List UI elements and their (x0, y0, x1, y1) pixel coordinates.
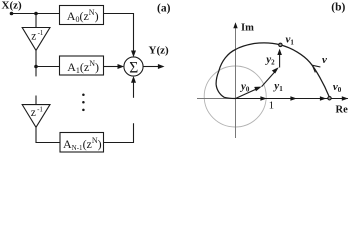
svg-text:(b): (b) (331, 2, 345, 14)
wire summer output (143, 66, 159, 68)
arrowhead on trajectory (312, 65, 320, 72)
delay element z^-1 triangle 2 (22, 105, 50, 128)
svg-text:-1: -1 (37, 106, 43, 114)
wire AN-1 output to summer bottom (104, 123, 134, 142)
summer sigma node (124, 57, 143, 76)
svg-text:Y(z): Y(z) (149, 44, 169, 56)
unit circle (204, 66, 266, 127)
wire A0 output to summer top (104, 14, 134, 51)
vector y2 (279, 53, 281, 68)
block A0(z^N) (60, 6, 104, 25)
node marker v1 (279, 43, 282, 46)
wire delay2 to AN-1 (36, 127, 60, 142)
wire Im axis gray (235, 27, 237, 139)
wire delay1 down to J2 (35, 50, 37, 76)
svg-text:-1: -1 (38, 29, 44, 37)
svg-text:Im: Im (241, 23, 254, 34)
node junction J2 (34, 65, 38, 69)
arrowhead on Re axis unit vector (260, 96, 266, 100)
spiral trajectory curve (216, 43, 329, 99)
arrowhead Re axis end (342, 96, 348, 100)
arrowhead Im axis (233, 22, 237, 28)
svg-text:A0(zN): A0(zN) (67, 8, 99, 24)
vector y0 (236, 89, 258, 99)
node junction J1 (34, 12, 38, 16)
svg-text:(a): (a) (157, 3, 171, 15)
wire stub into delay 2 (35, 96, 37, 105)
arrowhead on Re axis vector 2 (290, 96, 296, 100)
wire A1 output to summer left (104, 66, 119, 68)
vector y0 tip to y2 base (262, 70, 277, 86)
wire Re axis gray left part (197, 98, 236, 100)
block A1(z^N) (60, 56, 104, 75)
block AN-1(z^N) (60, 133, 104, 153)
arrowhead on Re axis vector 3 (320, 96, 326, 100)
svg-text:Σ: Σ (129, 59, 138, 76)
svg-text:1: 1 (269, 100, 275, 112)
svg-text:A1(zN): A1(zN) (67, 59, 99, 75)
svg-text:X(z): X(z) (2, 0, 22, 12)
delay element z^-1 triangle 1 (22, 28, 50, 51)
node marker v0 (328, 97, 331, 100)
node input terminal dot (10, 12, 14, 16)
node ellipsis dots between A1 and AN-1 (82, 93, 85, 96)
svg-text:Re: Re (336, 104, 349, 115)
wire J2 to A1 (36, 66, 60, 68)
svg-text:z: z (31, 31, 36, 43)
svg-text:ν: ν (322, 54, 327, 66)
wire top rail X(z) to A0 (12, 13, 60, 15)
wire J1 down to delay 1 (35, 14, 37, 28)
svg-text:z: z (31, 107, 36, 119)
wire Re axis black part (236, 98, 348, 100)
